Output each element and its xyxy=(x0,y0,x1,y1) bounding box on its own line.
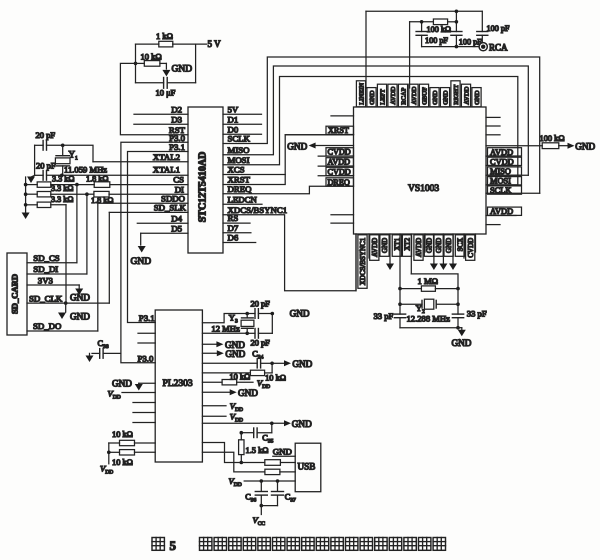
svg-text:LEFT: LEFT xyxy=(379,89,386,105)
svg-text:3.3 kΩ: 3.3 kΩ xyxy=(51,184,73,193)
pin MISO (STC right) xyxy=(228,145,250,155)
resistor 1 MΩ (Y2) xyxy=(400,276,458,291)
svg-text:AVDD: AVDD xyxy=(490,207,513,216)
svg-text:3.3 kΩ: 3.3 kΩ xyxy=(51,195,73,204)
svg-text:GND: GND xyxy=(442,90,449,105)
svg-text:XRST: XRST xyxy=(328,126,349,135)
svg-text:5V: 5V xyxy=(228,104,239,114)
pin RST (STC left) xyxy=(169,125,186,135)
wire: cap bottom rail to RCA xyxy=(422,46,479,48)
resistor 1 kΩ (reset) xyxy=(156,31,173,47)
svg-text:D6: D6 xyxy=(228,233,239,243)
pin RS (STC right) xyxy=(223,213,250,223)
wire: STC XRST to VS1003 XRST xyxy=(223,135,354,185)
svg-text:100 kΩ: 100 kΩ xyxy=(540,134,565,143)
node: reset junction xyxy=(134,62,138,66)
svg-text:C35: C35 xyxy=(262,434,273,445)
svg-text:SD_CARD: SD_CARD xyxy=(10,274,20,314)
pin SD_CLK (card) xyxy=(27,293,109,303)
pin MOSI (VS1003 right) xyxy=(486,177,522,186)
pin CVDD (VS1003 left a) xyxy=(318,148,353,157)
wire: output top rail xyxy=(366,11,482,88)
power VDD rail (USB) xyxy=(229,476,296,488)
svg-text:10 kΩ: 10 kΩ xyxy=(265,373,286,382)
pin SD_DO (card) xyxy=(27,321,98,331)
svg-text:1.5 kΩ: 1.5 kΩ xyxy=(246,446,269,455)
svg-text:GND: GND xyxy=(292,419,312,429)
svg-text:VDD: VDD xyxy=(229,476,242,488)
pin stub PL2303 left e xyxy=(133,422,155,424)
svg-text:RIGHT: RIGHT xyxy=(453,85,460,105)
wire: PL2303 pin1 to Y3 xyxy=(202,314,247,323)
svg-text:3V3: 3V3 xyxy=(38,275,54,285)
svg-text:GND: GND xyxy=(112,378,132,388)
svg-text:10 μF: 10 μF xyxy=(156,88,176,98)
svg-text:AVDD: AVDD xyxy=(415,238,423,257)
ground GND (3V3 pin) xyxy=(70,285,90,303)
pin 5V (STC right) xyxy=(223,104,262,114)
svg-text:D4: D4 xyxy=(171,213,182,223)
pin labels VS1003 bottom xyxy=(358,235,475,288)
svg-text:GND: GND xyxy=(445,238,453,253)
crystal Y1 11.059 MHz xyxy=(55,145,107,175)
svg-text:P3.1: P3.1 xyxy=(139,313,155,323)
wire: STC MISO wrap to VS1003 MISO xyxy=(223,66,528,175)
wire: C36-C37 join xyxy=(261,505,277,507)
svg-text:P3.1: P3.1 xyxy=(169,142,185,152)
pin stub PL2303 left c xyxy=(133,402,155,404)
svg-text:D2: D2 xyxy=(171,104,182,114)
svg-text:D5: D5 xyxy=(171,223,182,233)
node: VDD-C37 xyxy=(276,479,280,483)
connector RCA xyxy=(479,43,508,53)
svg-text:100 kΩ: 100 kΩ xyxy=(427,25,452,34)
svg-text:SD_DO: SD_DO xyxy=(33,321,61,331)
pin stub VS1003 left low a xyxy=(331,214,354,216)
svg-text:GND: GND xyxy=(426,238,434,253)
svg-text:MOSI: MOSI xyxy=(228,155,250,165)
pin SCX (VS1003 bottom) xyxy=(463,234,465,258)
node: SD_CLK junction xyxy=(64,301,68,305)
svg-text:5 V: 5 V xyxy=(208,39,222,49)
pin D2 (STC left) xyxy=(134,104,188,114)
svg-text:AVDD: AVDD xyxy=(463,86,470,104)
pin MOSI (STC right) xyxy=(228,155,250,165)
svg-text:LEDCN: LEDCN xyxy=(228,194,258,204)
svg-text:LINEIN: LINEIN xyxy=(358,83,365,105)
pin 3V3 (card) xyxy=(27,275,79,285)
ground GND (PL2303 left) xyxy=(112,378,155,390)
svg-text:STC12T5410AD: STC12T5410AD xyxy=(198,152,209,223)
node: Y2 rail L xyxy=(398,287,402,291)
resistor 3.3 kΩ (CS pull) xyxy=(37,175,77,188)
ground GND (long line) xyxy=(284,419,312,429)
svg-text:SCLK: SCLK xyxy=(228,134,251,144)
pin SDDO (STC left) xyxy=(98,193,188,203)
node: Y1 top xyxy=(61,144,65,148)
pin D5 (STC left) xyxy=(141,223,188,233)
pin VDD stub b (PL2303 right) xyxy=(202,412,243,424)
svg-text:D1: D1 xyxy=(228,114,239,124)
node: VDD-C36 xyxy=(260,479,264,483)
crystal Y2 12.288 MHz xyxy=(400,299,458,323)
wire: RCAP rail xyxy=(410,22,434,88)
pin stub VS1003 right 1 xyxy=(486,116,500,118)
node: Y2 line L xyxy=(398,302,402,306)
pin D6 (STC right) xyxy=(223,233,256,243)
svg-text:1.8 kΩ: 1.8 kΩ xyxy=(91,196,113,205)
svg-text:100 pF: 100 pF xyxy=(425,36,448,45)
pin P3.0 (STC left) xyxy=(169,133,185,143)
svg-text:GBUF: GBUF xyxy=(421,87,428,105)
resistor 10 kΩ (USB a) xyxy=(265,460,295,466)
wire: reset node to RST pin xyxy=(120,63,188,134)
pin GND (VS1003 bottom) xyxy=(439,234,447,270)
node: top rail junction xyxy=(455,10,459,14)
svg-text:10 kΩ: 10 kΩ xyxy=(229,372,250,381)
node: DI junction xyxy=(85,192,89,196)
resistor 100 kΩ (output) xyxy=(427,19,457,34)
svg-text:GND: GND xyxy=(381,238,389,253)
svg-text:CS: CS xyxy=(173,175,184,185)
pin DREQ (STC right) xyxy=(228,184,253,194)
power 5 V xyxy=(208,39,222,49)
pin D4 (STC left) xyxy=(137,213,188,223)
svg-text:33 pF: 33 pF xyxy=(467,309,487,319)
svg-text:P3.0: P3.0 xyxy=(138,353,154,363)
resistor 10 kΩ (reset) xyxy=(136,52,167,67)
capacitor 20 pF (Y3 bottom) xyxy=(247,329,272,348)
node: bus-R1 xyxy=(24,183,28,187)
svg-text:XTAL2: XTAL2 xyxy=(153,152,180,162)
pin SD_CS (card) xyxy=(27,253,77,263)
capacitor C37 xyxy=(272,481,297,506)
pin MISO (VS1003 right) xyxy=(486,167,528,176)
pin SCLK (VS1003 right) xyxy=(486,186,540,195)
wire: STC MOSI wrap to VS1003 MOSI xyxy=(223,77,518,185)
pin LEDCN (STC right) xyxy=(223,194,262,204)
pin XT1 (VS1003 bottom) xyxy=(399,234,401,289)
pin XT2 (VS1003 bottom) xyxy=(410,234,412,274)
svg-text:USB: USB xyxy=(298,462,316,472)
svg-text:PL2303: PL2303 xyxy=(163,379,193,389)
ground GND (SD_CLK) xyxy=(58,303,90,321)
resistor 10 kΩ (PL2303 right lower) xyxy=(202,372,253,385)
resistor 10 kΩ (PL2303 left upper) xyxy=(109,430,155,446)
node: Y3 link top xyxy=(271,312,275,316)
resistor 3.3 kΩ (CLK pull) xyxy=(37,195,73,208)
capacitor 33 pF (right) xyxy=(452,309,486,319)
svg-text:5: 5 xyxy=(170,538,177,553)
svg-text:XDCS/BSYNC1: XDCS/BSYNC1 xyxy=(359,237,367,285)
svg-text:VDD: VDD xyxy=(108,388,121,400)
svg-text:AVDD: AVDD xyxy=(328,158,351,167)
svg-text:33 pF: 33 pF xyxy=(374,311,394,321)
MCU U1 STC12T5410AD xyxy=(188,107,223,253)
svg-text:GND: GND xyxy=(70,293,90,303)
node: Y2 gnd xyxy=(456,326,460,330)
connector SD_CARD xyxy=(7,253,27,335)
node: 1.5k bottom xyxy=(240,461,244,465)
node: C34 out xyxy=(270,362,274,366)
pin GND (USB) xyxy=(273,446,295,456)
node: CS junction xyxy=(75,183,79,187)
wire: Y3 right link xyxy=(271,314,273,334)
resistor 1.8 kΩ (CS series) xyxy=(77,175,110,188)
capacitor 100 pF (right) xyxy=(477,24,510,43)
capacitor 100 pF (mid) xyxy=(451,32,482,47)
capacitor 100 pF (left) xyxy=(416,32,448,47)
wire: C35 right up xyxy=(271,423,273,432)
wire: crystal ground rail xyxy=(34,145,36,175)
resistor 10 kΩ (PL2303 right) xyxy=(202,370,286,382)
svg-text:XT2: XT2 xyxy=(404,237,412,250)
capacitor C38 xyxy=(92,339,121,358)
svg-text:GND: GND xyxy=(238,388,258,398)
svg-text:GND: GND xyxy=(432,90,439,105)
svg-text:11.059 MHz: 11.059 MHz xyxy=(64,164,107,174)
svg-text:GND: GND xyxy=(131,257,152,267)
wire: 3.3k CLK pull to SD_CLK xyxy=(65,205,67,303)
capacitor 20 pF (Y1 bottom) xyxy=(35,161,62,181)
svg-text:VS1003: VS1003 xyxy=(408,184,439,194)
svg-text:AVDD: AVDD xyxy=(411,86,418,104)
svg-text:SD_CLK: SD_CLK xyxy=(29,293,63,303)
wire: reset loop top rail to 5V xyxy=(136,44,207,83)
svg-text:CVDD: CVDD xyxy=(328,167,351,176)
svg-text:SD_SLK: SD_SLK xyxy=(154,203,187,213)
node: long gnd line xyxy=(270,422,274,426)
pin stub PL2303 left a xyxy=(138,332,155,334)
wire: USB D- line xyxy=(202,452,264,472)
svg-text:3.3 kΩ: 3.3 kΩ xyxy=(52,175,74,184)
node: 100k right xyxy=(455,20,459,24)
svg-text:SD_DI: SD_DI xyxy=(33,264,58,274)
resistor 10 kΩ (PL2303 left lower) xyxy=(109,450,155,467)
node: join xyxy=(260,504,264,508)
wire: STC SCLK wrap to VS1003 SCLK xyxy=(223,57,540,193)
pin XTAL2 (STC left) xyxy=(93,152,188,162)
capacitor 33 pF (left) xyxy=(374,311,406,321)
node: bus-R2 xyxy=(24,192,28,196)
node: Y3 top xyxy=(245,312,249,316)
pin XCS (STC right) xyxy=(223,165,285,175)
node: bus-R3 xyxy=(24,203,28,207)
svg-text:20 pF: 20 pF xyxy=(251,300,271,309)
wire: Y2 bottom rail xyxy=(400,318,458,328)
svg-text:XTAL1: XTAL1 xyxy=(153,164,180,174)
resistor 1.8 kΩ (DI series) xyxy=(87,191,114,205)
svg-text:XCS: XCS xyxy=(228,165,245,175)
pin DI (STC left) xyxy=(109,184,188,194)
wire: SD_DI riser xyxy=(86,194,88,274)
pin AVDD (VS1003 right b) xyxy=(486,207,522,216)
ground GND (reset 10k) xyxy=(162,63,192,76)
pin VDD (PL2303 left) xyxy=(108,388,156,400)
svg-text:GND: GND xyxy=(225,349,245,359)
DSP U2 VS1003 xyxy=(354,107,487,234)
pin D1 (STC right) xyxy=(223,114,262,124)
pin GND (VS1003 bottom) xyxy=(430,234,438,270)
svg-text:20 pF: 20 pF xyxy=(251,338,271,347)
svg-text:GND: GND xyxy=(435,238,443,253)
capacitor C35 xyxy=(241,428,273,445)
pin XDCS/BSYNC1 (VS1003 bottom) xyxy=(355,234,357,291)
pin CS (STC left) xyxy=(110,175,188,185)
node: Y3 bottom xyxy=(245,332,249,336)
ground GND (PL2303 pin3) xyxy=(202,340,245,350)
wire: XT2 to crystal right xyxy=(411,274,458,289)
pin SCLK (STC right) xyxy=(228,134,251,144)
svg-text:20 pF: 20 pF xyxy=(36,130,56,140)
power VDD (right 10k) xyxy=(257,378,270,390)
wire: SDDO to SD_DO riser xyxy=(97,203,99,331)
wire: PL2303 to GND (long) xyxy=(202,422,285,424)
resistor 3.3 kΩ (DI pull) xyxy=(37,184,87,197)
pin CVDD (VS1003 right) xyxy=(486,157,522,166)
node: left 10k join xyxy=(107,451,111,455)
wire: P3.1 to PL2303 xyxy=(128,152,189,323)
pin AVDD (VS1003 bottom) xyxy=(424,234,426,252)
ground GND (crystal rail) xyxy=(27,175,35,183)
svg-text:GND: GND xyxy=(172,65,193,75)
svg-text:CVDD: CVDD xyxy=(328,148,351,157)
pin stub VS1003 right 3 xyxy=(486,134,500,136)
ground GND (C34 line) xyxy=(272,359,313,369)
svg-text:1 MΩ: 1 MΩ xyxy=(418,276,438,286)
resistor 10 kΩ (USB b) xyxy=(265,469,295,474)
ground GND (Y2) xyxy=(452,328,472,348)
svg-text:D3: D3 xyxy=(171,114,182,124)
svg-text:GND: GND xyxy=(575,142,595,152)
capacitor C34 xyxy=(202,350,272,368)
pin P3.0 (PL2303) xyxy=(138,353,154,363)
svg-text:CVDD: CVDD xyxy=(490,157,514,166)
capacitor 20 pF (Y1 top) xyxy=(35,130,63,150)
pin CVDD (VS1003 bottom) xyxy=(475,234,477,252)
svg-text:SCX: SCX xyxy=(457,238,465,252)
svg-text:DREQ: DREQ xyxy=(228,184,253,194)
pin stub VS1003 left low b xyxy=(331,222,354,224)
svg-text:GND: GND xyxy=(474,90,481,105)
svg-text:12.288 MHz: 12.288 MHz xyxy=(407,313,451,323)
svg-text:GND: GND xyxy=(70,312,90,322)
connector USB xyxy=(295,443,321,492)
pin GND (VS1003 bottom) xyxy=(386,234,394,270)
power VDD (left 10k) xyxy=(100,464,113,476)
svg-text:GND: GND xyxy=(287,142,307,152)
pin XTAL1 (STC left) xyxy=(62,164,188,175)
ground GND (PL2303 pin) xyxy=(202,388,258,398)
svg-text:10 kΩ: 10 kΩ xyxy=(141,52,162,62)
svg-text:C37: C37 xyxy=(285,493,296,504)
wire: STC DREQ to VS1003 DREQ xyxy=(223,186,354,194)
node: Y2 rail R xyxy=(456,287,460,291)
pin AVDD (VS1003 right a) xyxy=(486,148,522,157)
svg-text:VCC: VCC xyxy=(253,515,266,527)
capacitor 20 pF (Y3 top) xyxy=(247,300,272,319)
wire: Y1 top to XTAL2 xyxy=(63,145,93,161)
wire: Y2 risers xyxy=(400,289,458,315)
wire: SD_CS riser xyxy=(76,185,78,263)
ground GND (C38) xyxy=(86,353,94,362)
capacitor C36 xyxy=(245,481,267,506)
wire: STC XDCS/BSYNC1 to VS1003 bottom pin xyxy=(223,215,356,291)
svg-text:VDD: VDD xyxy=(230,412,243,424)
svg-text:RCAP: RCAP xyxy=(400,87,407,105)
svg-text:100 pF: 100 pF xyxy=(487,24,510,33)
pin D0 (STC right) xyxy=(223,124,262,134)
pin stub PL2303 left d xyxy=(133,412,155,414)
wire: 10k up to GND node xyxy=(271,363,273,373)
wire: resistor bus xyxy=(26,177,38,212)
pin AVDD (VS1003 bottom) xyxy=(368,234,370,258)
net GND (Y3 area) xyxy=(290,309,310,319)
pin stub PL2303 left b xyxy=(138,342,155,344)
pin D7 (STC right) xyxy=(223,223,251,233)
pin P3.1 (STC left) xyxy=(169,142,185,152)
svg-text:GND: GND xyxy=(369,90,376,105)
svg-text:XT1: XT1 xyxy=(393,237,401,250)
svg-text:10 kΩ: 10 kΩ xyxy=(112,430,133,439)
resistor 1.5 kΩ (pullup) xyxy=(239,433,269,463)
pin stub VS1003 right low xyxy=(486,224,500,226)
pin SD_SLK (STC left) xyxy=(109,203,188,213)
pin XRST (STC right) xyxy=(228,175,251,185)
capacitor 10 μF (reset) xyxy=(136,78,196,98)
pin stub VS1003 right 2 xyxy=(486,125,500,127)
svg-text:C34: C34 xyxy=(252,350,263,361)
ground GND (bus bottom) xyxy=(22,213,30,220)
pin DREQ (VS1003 left) xyxy=(326,178,354,187)
node: 100k left xyxy=(420,20,424,24)
svg-text:1.8 kΩ: 1.8 kΩ xyxy=(86,175,108,184)
svg-text:AVDD: AVDD xyxy=(390,86,397,104)
pin stub VS1003 left top xyxy=(331,115,354,117)
node: C35 left xyxy=(240,431,244,435)
wire: SD_SLK to SD_CLK riser xyxy=(108,212,110,303)
wire: P3.0 to PL2303 xyxy=(121,142,188,362)
ground GND (PL2303 pin4) xyxy=(202,349,245,359)
svg-text:RS: RS xyxy=(228,213,239,223)
wire: USB D+ line xyxy=(202,443,264,463)
node: Y1 bottom on XTAL1 xyxy=(60,174,64,178)
svg-text:GND: GND xyxy=(292,359,312,369)
svg-text:12 MHz: 12 MHz xyxy=(211,323,240,333)
pin D3 (STC left) xyxy=(134,114,188,124)
pin P3.1 (PL2303) xyxy=(139,313,155,323)
pin GND (VS1003 bottom) xyxy=(449,234,457,270)
pin labels VS1003 top (LINEIN GND LEFT AVDD RCAP AVDD GBUF GND GND RIGHT AVDD GND) xyxy=(356,81,481,107)
pin VDD stub a (PL2303 right) xyxy=(202,401,243,413)
power VCC xyxy=(253,506,266,527)
caption: 图5 便携式智能语音播放器电路设计原理图 xyxy=(152,538,446,553)
svg-text:1 kΩ: 1 kΩ xyxy=(156,31,173,41)
wire: VS1003 pin to 100k pulldown xyxy=(486,145,542,147)
svg-text:CVDD: CVDD xyxy=(467,238,475,258)
pin SD_DI (card) xyxy=(27,264,87,274)
svg-text:SD_CS: SD_CS xyxy=(33,253,60,263)
wire: left 10k common xyxy=(108,443,110,464)
svg-text:MISO: MISO xyxy=(228,145,250,155)
svg-text:20 pF: 20 pF xyxy=(36,161,56,171)
svg-text:AVDD: AVDD xyxy=(490,148,513,157)
svg-text:10 kΩ: 10 kΩ xyxy=(112,458,133,467)
wire: PL2303 pin2 rail xyxy=(202,332,247,334)
pin XDCS/BSYNC1 (STC right) xyxy=(228,205,288,215)
svg-text:GND: GND xyxy=(273,446,292,456)
ground GND (below D5) xyxy=(131,233,152,267)
